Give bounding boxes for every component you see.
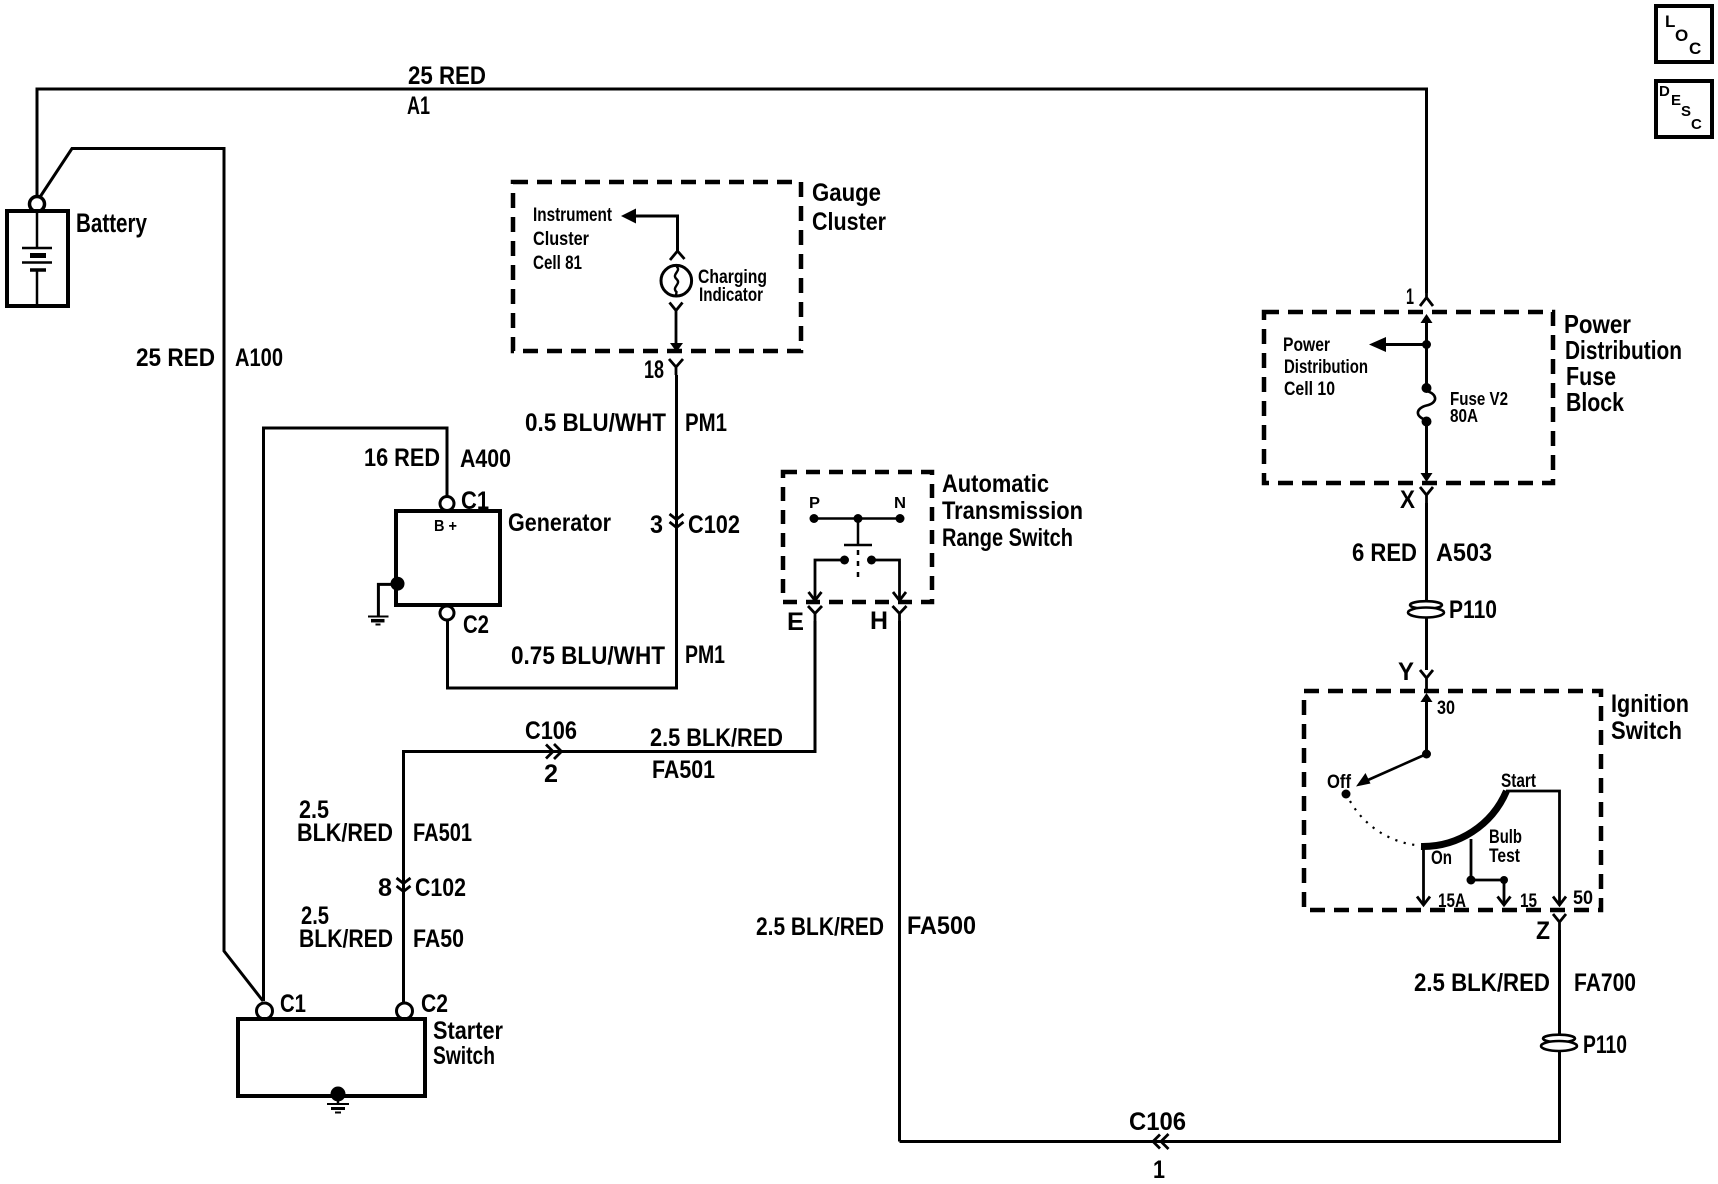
svg-text:Off: Off <box>1327 772 1352 793</box>
svg-text:Range Switch: Range Switch <box>942 524 1073 552</box>
wire On to 15A terminal <box>1422 847 1425 904</box>
bulb filament squiggle <box>675 267 678 296</box>
svg-text:16 RED: 16 RED <box>364 444 440 472</box>
switch actuator dashed travel <box>857 550 860 583</box>
svg-text:25 RED: 25 RED <box>136 344 215 372</box>
starter ground junction dot <box>331 1087 346 1102</box>
svg-text:X: X <box>1400 486 1415 514</box>
svg-text:Test: Test <box>1489 846 1521 867</box>
wire 2.5 BLK/RED FA501 starter C2 up and right to range switch E <box>404 621 816 1003</box>
svg-text:Cluster: Cluster <box>533 229 590 250</box>
svg-text:H: H <box>870 607 888 635</box>
svg-text:3: 3 <box>650 511 663 539</box>
svg-text:E: E <box>1671 92 1681 109</box>
automatic transmission range switch dashed box <box>783 472 932 602</box>
svg-text:15A: 15A <box>1438 891 1466 912</box>
bulb lower female fork and wire to edge <box>670 303 683 345</box>
dotted travel arc Off to On <box>1350 801 1415 845</box>
wire 2.5 BLK/RED FA700 from Z to bottom rail <box>1558 930 1561 1034</box>
male pin H (down arrow at edge) <box>893 592 906 601</box>
Bulb Test junction dot left <box>1467 876 1476 885</box>
svg-text:On: On <box>1431 848 1452 869</box>
range switch P-N contact bar <box>814 517 900 520</box>
svg-text:C: C <box>1689 39 1701 58</box>
svg-text:25 RED: 25 RED <box>408 62 486 90</box>
svg-text:1: 1 <box>1406 284 1414 309</box>
power distribution fuse block dashed box <box>1264 312 1553 483</box>
LOC legend box <box>1656 6 1712 62</box>
wire lower left contact to E pin <box>815 560 845 600</box>
svg-text:Battery: Battery <box>76 208 147 238</box>
wire 2.5 BLK/RED FA500 from H down to bottom rail <box>898 621 901 1142</box>
bottom rail wire to ignition switch 50 terminal <box>900 1051 1560 1142</box>
male pin E (down arrow at edge) <box>809 592 822 601</box>
connector C102 pin 8 inline chevrons <box>397 878 411 892</box>
male pin 15 (down arrow at edge) <box>1498 897 1511 906</box>
wire inside fuse block down to fuse <box>1425 318 1428 385</box>
svg-text:2.5 BLK/RED: 2.5 BLK/RED <box>650 724 783 752</box>
wire lower right contact to H pin <box>872 560 900 600</box>
svg-text:BLK/RED: BLK/RED <box>299 925 393 953</box>
svg-text:N: N <box>894 495 906 512</box>
svg-text:A1: A1 <box>407 92 430 120</box>
battery B1 box <box>7 211 68 306</box>
svg-text:15: 15 <box>1520 891 1537 912</box>
svg-text:C106: C106 <box>1129 1108 1186 1136</box>
contact dot center <box>854 514 863 523</box>
svg-text:1: 1 <box>1153 1156 1165 1184</box>
fuse block male pin (up arrow inside edge) <box>1421 314 1433 323</box>
battery cell symbol <box>22 211 52 306</box>
pass-through grommet P110 (upper) <box>1408 601 1444 617</box>
svg-text:FA501: FA501 <box>413 819 472 847</box>
contact dot N <box>896 514 905 523</box>
generator ground wire <box>378 584 397 616</box>
svg-text:2.5 BLK/RED: 2.5 BLK/RED <box>756 913 884 941</box>
svg-text:P: P <box>809 495 820 512</box>
svg-text:C: C <box>1691 116 1702 133</box>
svg-text:C102: C102 <box>415 874 466 902</box>
svg-text:B +: B + <box>434 518 457 535</box>
svg-text:Switch: Switch <box>433 1042 495 1070</box>
svg-text:Bulb: Bulb <box>1489 827 1522 848</box>
svg-text:FA500: FA500 <box>907 912 976 940</box>
svg-text:PM1: PM1 <box>685 641 725 669</box>
ground symbol (generator) <box>368 617 389 625</box>
svg-text:C1: C1 <box>280 990 306 1018</box>
svg-text:8: 8 <box>378 874 392 902</box>
svg-text:0.5 BLU/WHT: 0.5 BLU/WHT <box>525 409 666 437</box>
gauge cluster pin 18 female fork <box>669 359 683 375</box>
switch blade arrow toward Off <box>1368 754 1427 780</box>
generator terminal C2 ring <box>440 606 454 620</box>
wire P110 to Y fork <box>1425 618 1428 670</box>
male pin 15A (down arrow at edge) <box>1417 897 1430 906</box>
wire Start to 50 terminal <box>1506 791 1560 904</box>
svg-text:18: 18 <box>644 356 664 384</box>
connector C106 pin 1 inline chevrons (pointing left) <box>1153 1134 1169 1149</box>
ground symbol (starter) <box>327 1096 349 1113</box>
svg-text:0.75 BLU/WHT: 0.75 BLU/WHT <box>511 642 665 670</box>
range switch lower contact dot left <box>840 556 849 565</box>
svg-text:BLK/RED: BLK/RED <box>297 819 393 847</box>
svg-text:O: O <box>1675 26 1688 45</box>
connector C102 pin 3 inline chevrons <box>670 514 684 528</box>
junction dot at fuse feed <box>1422 340 1431 349</box>
connector C106 pin 2 inline chevrons <box>546 744 562 759</box>
ignition male pin 30 (up arrow inside edge) <box>1421 693 1433 702</box>
svg-text:FA501: FA501 <box>652 756 715 784</box>
svg-text:Indicator: Indicator <box>699 285 763 306</box>
male pin 50 (down arrow at edge) <box>1553 897 1566 906</box>
svg-text:A100: A100 <box>235 344 283 372</box>
fuse V2 element (dot squiggle dot) <box>1422 383 1432 393</box>
wire Bulb Test tap to 15 terminal <box>1471 839 1504 904</box>
generator ground junction dot <box>391 577 405 591</box>
switch actuator stem and crossbar <box>844 519 872 546</box>
female fork E below box <box>808 606 822 621</box>
svg-text:2: 2 <box>544 760 558 788</box>
svg-text:E: E <box>787 608 804 636</box>
svg-text:Start: Start <box>1501 771 1537 792</box>
svg-text:FA700: FA700 <box>1574 969 1636 997</box>
svg-text:Generator: Generator <box>508 509 611 537</box>
svg-text:Transmission: Transmission <box>942 497 1083 525</box>
contact dot P <box>810 514 819 523</box>
Bulb Test junction dot right <box>1500 876 1508 884</box>
svg-text:A503: A503 <box>1436 539 1492 567</box>
wire 16 RED A400 generator C1 to starter C1 <box>264 428 448 1001</box>
svg-text:C2: C2 <box>463 611 489 639</box>
svg-text:50: 50 <box>1573 888 1593 909</box>
svg-text:P110: P110 <box>1583 1031 1627 1059</box>
svg-text:Instrument: Instrument <box>533 205 613 226</box>
generator terminal C1 ring <box>440 497 454 511</box>
starter switch terminal C1 ring <box>257 1003 273 1019</box>
gauge cluster dashed box <box>513 182 801 351</box>
wire 6 RED A503 from X to ignition switch <box>1425 503 1428 600</box>
svg-text:P110: P110 <box>1449 596 1497 624</box>
svg-text:Switch: Switch <box>1611 717 1682 745</box>
svg-text:Ignition: Ignition <box>1611 690 1689 718</box>
wire 25 RED A1 top rail from battery to fuse block <box>37 89 1427 293</box>
svg-text:C102: C102 <box>688 511 740 539</box>
svg-text:D: D <box>1659 83 1670 100</box>
ignition switch dashed box <box>1304 691 1601 910</box>
wire to power distribution cell with left arrowhead <box>1386 343 1427 346</box>
svg-text:Cell 10: Cell 10 <box>1284 379 1335 400</box>
svg-text:Distribution: Distribution <box>1284 357 1368 378</box>
svg-text:Cell 81: Cell 81 <box>533 253 582 274</box>
starter switch terminal C2 ring <box>397 1003 413 1019</box>
pass-through grommet P110 (lower) <box>1541 1035 1577 1051</box>
generator box <box>396 511 500 605</box>
svg-text:Block: Block <box>1566 387 1624 417</box>
svg-text:Z: Z <box>1536 917 1550 945</box>
svg-text:C2: C2 <box>421 990 448 1018</box>
svg-text:Y: Y <box>1398 658 1414 686</box>
svg-text:FA50: FA50 <box>413 925 464 953</box>
female fork H below box <box>893 606 907 621</box>
thick contact arc On to Start <box>1421 791 1507 847</box>
wire A1 female fork at fuse block pin 1 <box>1420 293 1433 306</box>
svg-text:S: S <box>1681 103 1691 120</box>
female fork Y above ignition switch <box>1420 670 1433 691</box>
switch pivot dot <box>1422 750 1431 759</box>
svg-text:Starter: Starter <box>433 1017 503 1045</box>
svg-text:A400: A400 <box>460 445 511 473</box>
contact dot Off <box>1342 790 1351 799</box>
svg-text:Cluster: Cluster <box>812 208 886 236</box>
svg-text:PM1: PM1 <box>685 409 727 437</box>
wire to instrument cluster with left arrowhead <box>634 216 678 251</box>
female fork X below fuse block <box>1420 487 1433 503</box>
wire fuse to X pin with down arrow at edge <box>1425 424 1428 474</box>
bulb upper female fork <box>670 251 685 260</box>
svg-text:Power: Power <box>1283 335 1330 356</box>
battery positive terminal ring <box>30 197 45 212</box>
starter switch box <box>238 1019 425 1096</box>
female fork Z below ignition switch <box>1553 914 1566 930</box>
svg-text:C106: C106 <box>525 717 577 745</box>
DESC legend box <box>1656 81 1712 137</box>
range switch lower contact dot right <box>867 556 876 565</box>
gauge cluster male pin (down arrow at edge) <box>670 343 683 352</box>
svg-text:2.5 BLK/RED: 2.5 BLK/RED <box>1414 969 1550 997</box>
svg-text:L: L <box>1665 12 1675 31</box>
svg-text:6 RED: 6 RED <box>1352 539 1417 567</box>
svg-text:30: 30 <box>1437 698 1455 719</box>
wire 30 to switch pivot <box>1425 697 1428 754</box>
wire 0.75 BLU/WHT PM1 generator C2 to gauge cluster <box>448 375 677 688</box>
charging indicator bulb <box>661 265 692 296</box>
svg-text:80A: 80A <box>1450 406 1478 426</box>
svg-text:Gauge: Gauge <box>812 179 881 207</box>
svg-text:Automatic: Automatic <box>942 470 1049 498</box>
wire 25 RED A100 battery to starter C1 <box>40 149 263 1002</box>
